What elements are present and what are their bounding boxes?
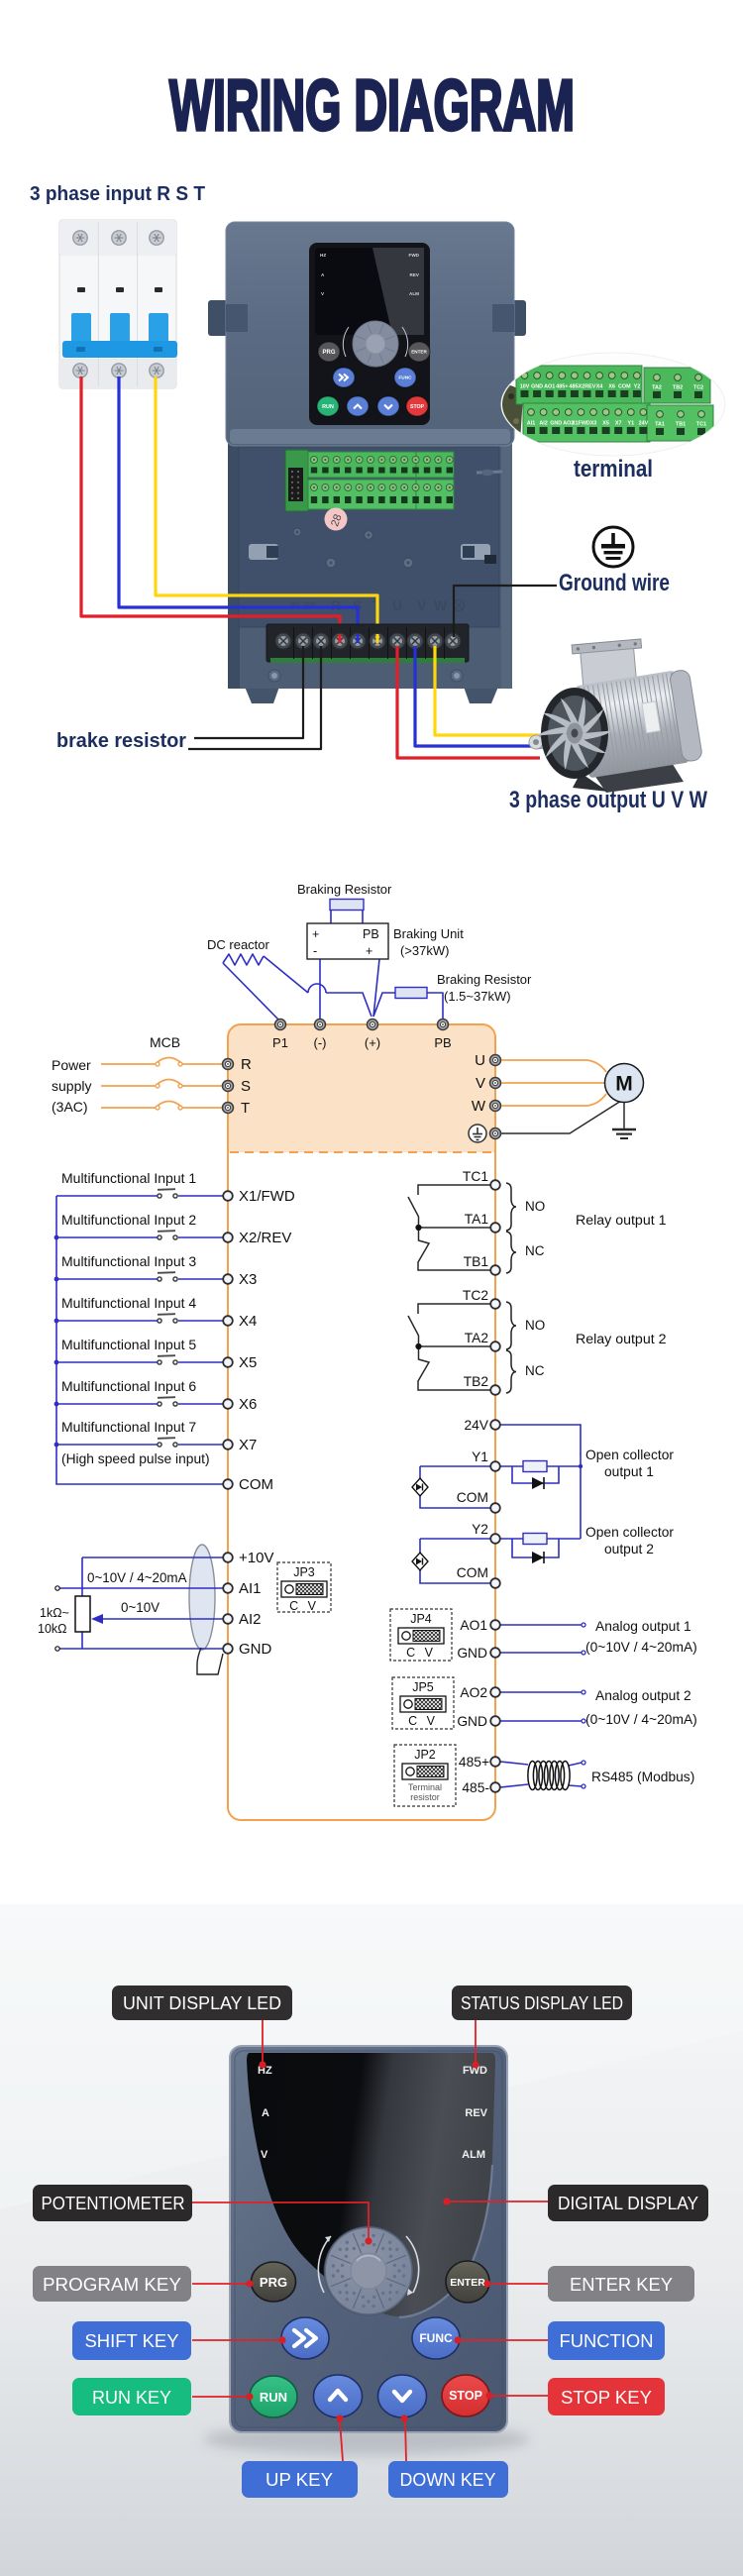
svg-text:A: A [262, 2107, 269, 2119]
svg-text:Multifunctional Input 3: Multifunctional Input 3 [61, 1253, 196, 1269]
svg-text:AI2: AI2 [239, 1611, 262, 1628]
svg-text:TB1: TB1 [676, 422, 686, 428]
svg-text:-: - [313, 944, 317, 958]
svg-text:Analog output 2: Analog output 2 [595, 1688, 691, 1703]
svg-text:brake resistor: brake resistor [56, 729, 186, 752]
svg-text:R: R [241, 1056, 252, 1073]
svg-text:(3AC): (3AC) [52, 1099, 88, 1115]
svg-text:ENTER: ENTER [450, 2277, 485, 2289]
svg-text:TC1: TC1 [463, 1169, 488, 1184]
svg-text:JP4: JP4 [410, 1612, 432, 1626]
svg-text:Power: Power [52, 1057, 91, 1073]
svg-text:AI1: AI1 [527, 421, 535, 427]
svg-text:Multifunctional Input 5: Multifunctional Input 5 [61, 1337, 196, 1352]
svg-text:Y1: Y1 [628, 421, 635, 427]
svg-text:FWD: FWD [409, 253, 420, 258]
svg-text:ENTER KEY: ENTER KEY [570, 2274, 673, 2295]
svg-text:0~10V / 4~20mA: 0~10V / 4~20mA [87, 1570, 187, 1585]
svg-text:RS485 (Modbus): RS485 (Modbus) [591, 1770, 694, 1784]
svg-text:P1: P1 [272, 1035, 288, 1050]
svg-text:485+: 485+ [459, 1755, 489, 1770]
svg-text:TB2: TB2 [673, 385, 683, 391]
svg-text:0~10V: 0~10V [121, 1600, 159, 1615]
svg-text:Y2: Y2 [472, 1522, 488, 1537]
svg-text:+10V: +10V [239, 1550, 273, 1566]
svg-text:X6: X6 [239, 1396, 257, 1413]
svg-text:V: V [476, 1075, 485, 1092]
svg-text:STOP: STOP [449, 2389, 482, 2403]
svg-text:(0~10V / 4~20mA): (0~10V / 4~20mA) [585, 1712, 697, 1727]
svg-text:Multifunctional Input 6: Multifunctional Input 6 [61, 1378, 196, 1394]
svg-text:REV: REV [465, 2107, 487, 2119]
svg-text:Relay output 2: Relay output 2 [576, 1332, 667, 1347]
svg-text:(-): (-) [314, 1035, 327, 1050]
svg-text:ALM: ALM [409, 291, 419, 296]
svg-text:PB: PB [363, 927, 379, 941]
svg-text:NO: NO [525, 1318, 545, 1333]
svg-text:T: T [241, 1100, 250, 1117]
svg-text:Y1: Y1 [472, 1449, 488, 1464]
svg-text:X4: X4 [596, 384, 603, 390]
svg-text:SHIFT KEY: SHIFT KEY [85, 2330, 179, 2351]
svg-text:NC: NC [525, 1363, 545, 1378]
svg-text:+: + [366, 944, 372, 958]
svg-text:M: M [615, 1073, 633, 1096]
svg-text:X3: X3 [239, 1271, 257, 1288]
svg-text:(1.5~37kW): (1.5~37kW) [444, 989, 511, 1004]
svg-text:AO1: AO1 [460, 1618, 487, 1633]
svg-text:Ground wire: Ground wire [559, 570, 670, 596]
svg-text:Y2: Y2 [634, 384, 641, 390]
svg-text:X5: X5 [239, 1354, 257, 1371]
svg-text:GND: GND [550, 421, 562, 427]
svg-text:U: U [392, 597, 402, 613]
svg-text:485-: 485- [462, 1780, 489, 1795]
svg-text:COM: COM [457, 1490, 488, 1505]
svg-text:Analog output 1: Analog output 1 [595, 1619, 691, 1634]
svg-text:COM: COM [239, 1476, 273, 1493]
svg-text:RUN: RUN [322, 404, 334, 410]
svg-text:TA1: TA1 [655, 422, 665, 428]
svg-text:HZ: HZ [320, 253, 326, 258]
svg-text:24V: 24V [464, 1418, 488, 1433]
svg-text:output 2: output 2 [604, 1542, 654, 1556]
svg-text:TC2: TC2 [463, 1288, 488, 1303]
svg-text:24V: 24V [639, 421, 649, 427]
svg-text:TB2: TB2 [464, 1374, 488, 1389]
svg-text:X1/FWD: X1/FWD [239, 1188, 295, 1205]
svg-text:RUN: RUN [260, 2390, 287, 2405]
svg-text:RUN KEY: RUN KEY [92, 2387, 171, 2408]
svg-text:TC1: TC1 [696, 422, 706, 428]
svg-text:ALM: ALM [462, 2149, 485, 2161]
svg-text:POTENTIOMETER: POTENTIOMETER [42, 2193, 185, 2213]
svg-text:STOP: STOP [410, 404, 425, 410]
svg-text:485+: 485+ [556, 384, 568, 390]
svg-text:Braking Resistor: Braking Resistor [437, 972, 532, 987]
svg-text:Open collector: Open collector [585, 1448, 674, 1462]
svg-text:+: + [312, 927, 319, 941]
svg-text:(+): (+) [365, 1035, 380, 1050]
svg-text:DC reactor: DC reactor [207, 937, 270, 952]
svg-text:GND: GND [531, 384, 543, 390]
svg-text:PROGRAM KEY: PROGRAM KEY [43, 2274, 181, 2295]
svg-text:10V: 10V [520, 384, 530, 390]
svg-text:TA2: TA2 [465, 1331, 488, 1345]
svg-text:PRG: PRG [260, 2275, 287, 2290]
svg-text:V: V [261, 2149, 268, 2161]
svg-text:GND: GND [457, 1714, 487, 1729]
svg-text:10kΩ: 10kΩ [38, 1622, 67, 1636]
svg-text:C V: C V [289, 1599, 319, 1613]
svg-text:DOWN KEY: DOWN KEY [400, 2469, 496, 2490]
svg-text:NC: NC [525, 1243, 545, 1258]
svg-text:TB1: TB1 [464, 1254, 488, 1269]
svg-text:AO1: AO1 [544, 384, 555, 390]
svg-text:Multifunctional Input 1: Multifunctional Input 1 [61, 1170, 196, 1186]
svg-text:COM: COM [618, 384, 631, 390]
svg-text:R: R [331, 597, 341, 613]
svg-text:C V: C V [406, 1646, 436, 1660]
svg-text:1kΩ~: 1kΩ~ [40, 1606, 69, 1620]
svg-text:X2/REV: X2/REV [239, 1230, 291, 1246]
svg-text:UP KEY: UP KEY [265, 2469, 333, 2490]
svg-text:Open collector: Open collector [585, 1525, 674, 1540]
svg-text:(High speed pulse input): (High speed pulse input) [61, 1451, 210, 1466]
svg-text:AI2: AI2 [539, 421, 547, 427]
svg-text:AI1: AI1 [239, 1580, 262, 1597]
svg-text:output 1: output 1 [604, 1464, 654, 1479]
svg-text:3 phase input R S T: 3 phase input R S T [30, 182, 205, 205]
svg-text:Braking Resistor: Braking Resistor [297, 882, 392, 897]
svg-text:GND: GND [239, 1641, 272, 1658]
svg-text:X5: X5 [602, 421, 609, 427]
svg-text:S: S [241, 1078, 251, 1095]
svg-text:W: W [434, 597, 448, 613]
svg-text:resistor: resistor [410, 1792, 440, 1802]
svg-text:W: W [472, 1098, 486, 1115]
svg-text:FUNC: FUNC [419, 2331, 453, 2345]
svg-text:TA1: TA1 [465, 1212, 488, 1227]
svg-text:MCB: MCB [150, 1034, 180, 1050]
svg-text:Multifunctional Input 2: Multifunctional Input 2 [61, 1212, 196, 1228]
svg-text:Relay output 1: Relay output 1 [576, 1213, 667, 1229]
svg-text:3 phase output U V W: 3 phase output U V W [509, 787, 707, 813]
svg-text:JP3: JP3 [293, 1565, 315, 1579]
svg-text:AO2: AO2 [460, 1685, 487, 1700]
svg-text:Multifunctional Input 7: Multifunctional Input 7 [61, 1419, 196, 1435]
svg-text:(0~10V / 4~20mA): (0~10V / 4~20mA) [585, 1640, 697, 1655]
svg-text:X2REV: X2REV [579, 384, 596, 390]
svg-text:STATUS DISPLAY LED: STATUS DISPLAY LED [461, 1992, 623, 2013]
svg-text:UNIT DISPLAY LED: UNIT DISPLAY LED [123, 1992, 281, 2013]
svg-text:U: U [475, 1052, 485, 1069]
svg-text:supply: supply [52, 1078, 91, 1094]
svg-text:C V: C V [408, 1714, 438, 1728]
svg-text:STOP KEY: STOP KEY [561, 2387, 652, 2408]
svg-text:Braking Unit: Braking Unit [393, 926, 464, 941]
svg-text:COM: COM [457, 1565, 488, 1580]
svg-text:TC2: TC2 [693, 385, 703, 391]
svg-text:JP5: JP5 [412, 1680, 434, 1694]
svg-text:PRG: PRG [322, 350, 335, 356]
svg-text:ENTER: ENTER [411, 350, 427, 355]
svg-text:WIRING DIAGRAM: WIRING DIAGRAM [169, 66, 575, 146]
svg-text:X4: X4 [239, 1313, 257, 1330]
svg-text:X7: X7 [615, 421, 622, 427]
svg-text:terminal: terminal [574, 456, 653, 483]
svg-text:REV: REV [410, 272, 420, 277]
svg-text:(>37kW): (>37kW) [400, 943, 449, 958]
svg-text:FUNC: FUNC [398, 376, 412, 381]
svg-text:V: V [417, 597, 427, 613]
svg-text:TA2: TA2 [652, 385, 662, 391]
svg-text:JP2: JP2 [414, 1748, 436, 1762]
svg-text:Multifunctional Input 4: Multifunctional Input 4 [61, 1295, 196, 1311]
svg-text:NO: NO [525, 1199, 545, 1214]
svg-text:X6: X6 [608, 384, 615, 390]
svg-text:FUNCTION: FUNCTION [560, 2330, 654, 2351]
svg-text:X1FWD: X1FWD [572, 421, 590, 427]
svg-text:PB: PB [434, 1035, 451, 1050]
svg-text:X7: X7 [239, 1437, 257, 1453]
svg-text:DIGITAL DISPLAY: DIGITAL DISPLAY [558, 2193, 698, 2213]
svg-text:Terminal: Terminal [408, 1782, 442, 1792]
svg-text:X3: X3 [590, 421, 597, 427]
svg-text:GND: GND [457, 1646, 487, 1661]
